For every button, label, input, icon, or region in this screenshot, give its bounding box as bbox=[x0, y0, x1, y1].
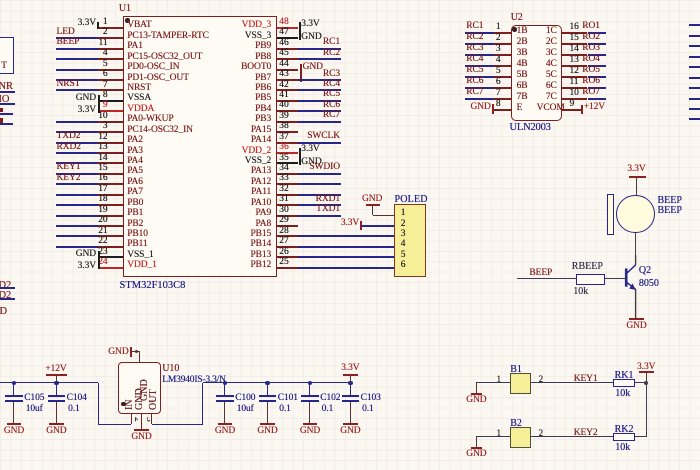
key switch B1 bbox=[497, 382, 510, 383]
clipped net label fragment bbox=[0, 118, 3, 123]
wire bbox=[588, 65, 606, 67]
U1 pin 19 (PB1) bbox=[98, 215, 123, 217]
wire bbox=[98, 383, 99, 424]
clipped net label D2 bbox=[0, 280, 79, 292]
net label RC4 bbox=[280, 79, 340, 90]
POLED pin 6 bbox=[401, 260, 481, 271]
U1 pin 37 (PA14) bbox=[277, 142, 298, 144]
net label RC1 bbox=[280, 37, 340, 48]
net label RO4 bbox=[582, 54, 662, 65]
wire bbox=[56, 152, 99, 154]
U1 pin 24 (VDD_1) bbox=[98, 267, 123, 269]
U2 pin 9 (VCOM) bbox=[562, 109, 581, 111]
capacitor C102 bbox=[309, 383, 310, 395]
net label RC7 bbox=[466, 87, 546, 98]
net label NRST bbox=[57, 79, 137, 90]
wire bbox=[298, 142, 341, 144]
wire bbox=[298, 173, 341, 175]
designator POLED bbox=[395, 194, 475, 205]
U2 pin 8 (E) bbox=[494, 109, 510, 111]
wire bbox=[298, 246, 394, 248]
U1 pin 32 (PA11) bbox=[277, 194, 298, 196]
wire bbox=[56, 215, 99, 217]
wire bbox=[298, 89, 341, 91]
wire bbox=[689, 45, 700, 47]
value LM3940IS-3.3/N bbox=[162, 375, 242, 386]
U2 pin 10 (7C) bbox=[562, 98, 587, 100]
U2 pin 12 (5C) bbox=[562, 76, 587, 78]
U10 pin-1 marker dot bbox=[121, 402, 125, 406]
wire bbox=[0, 91, 15, 93]
wire bbox=[202, 383, 203, 424]
ground GND (U10 tab) bbox=[130, 347, 132, 357]
ground GND (C105) bbox=[7, 423, 21, 425]
wire bbox=[476, 382, 497, 383]
power port 3.3V (U1 pin 1) bbox=[97, 22, 99, 29]
U1 pin-1 marker dot bbox=[125, 18, 129, 22]
junction bbox=[223, 381, 227, 385]
U1 pin 38 (PA15) bbox=[277, 131, 298, 133]
wire bbox=[689, 98, 700, 100]
ground GND (U10) bbox=[134, 429, 148, 431]
wire bbox=[689, 108, 700, 110]
svg-text:OUT: OUT bbox=[148, 389, 159, 410]
U1 pin 4 (PC15-OSC32_OUT) bbox=[98, 58, 123, 60]
wire +12V bus bbox=[0, 382, 98, 383]
junction bbox=[54, 381, 58, 385]
net label RO7 bbox=[582, 87, 662, 98]
designator U1 bbox=[119, 3, 199, 14]
wire 3.3V bus bbox=[203, 382, 351, 383]
wire bbox=[98, 424, 131, 425]
svg-text:3: 3 bbox=[144, 417, 150, 422]
U2 pin 2 (2B) bbox=[494, 43, 510, 45]
U1 pin 15 (PA5) bbox=[98, 173, 123, 175]
net label RC2 bbox=[280, 48, 340, 59]
U1 pin 6 (PD1-OSC_OUT) bbox=[98, 79, 123, 81]
U2 pin-1 marker dot bbox=[512, 27, 516, 31]
U2 pin 14 (3C) bbox=[562, 54, 587, 56]
net label BEEP bbox=[57, 37, 137, 48]
U10 pin 2 stub bbox=[131, 414, 132, 424]
wire bbox=[689, 118, 700, 120]
wire bbox=[465, 43, 494, 45]
capacitor C105 bbox=[13, 383, 14, 395]
value ULN2003 bbox=[510, 122, 590, 134]
wire bbox=[298, 58, 341, 60]
wire bbox=[298, 235, 394, 237]
power port 3.3V (keys pull-up) bbox=[626, 362, 666, 373]
wire bbox=[689, 35, 700, 37]
U1 pin 21 (PB10) bbox=[98, 235, 123, 237]
net label SWDIO bbox=[280, 162, 340, 173]
net label RXD1 bbox=[280, 194, 340, 205]
transistor Q2 bbox=[600, 255, 660, 325]
wire bbox=[298, 194, 341, 196]
value 8050 bbox=[639, 278, 700, 289]
wire bbox=[298, 100, 341, 102]
wire bbox=[0, 113, 13, 115]
wire bbox=[56, 142, 99, 144]
U2 pin 1 (1B) bbox=[494, 32, 510, 34]
clipped net label IO bbox=[0, 94, 79, 106]
wire bbox=[465, 87, 494, 89]
U10 pin 3 stub bbox=[151, 414, 152, 424]
net label SWCLK bbox=[280, 131, 340, 142]
U10 top ground stub bbox=[139, 351, 140, 361]
U1 pin 2 (PC13-TAMPER-RTC) bbox=[98, 37, 123, 39]
wire bbox=[588, 32, 606, 34]
wire bbox=[56, 79, 99, 81]
U1 pin 17 (PA7) bbox=[98, 194, 123, 196]
POLED pin 3 bbox=[401, 229, 481, 240]
wire bbox=[0, 123, 13, 125]
ground GND (U1 pin 47) bbox=[301, 32, 381, 43]
net label TXD1 bbox=[280, 204, 340, 215]
clipped pin name T bbox=[1, 61, 81, 72]
net label RC3 bbox=[280, 69, 340, 80]
U1 pin 40 (PB4) bbox=[277, 110, 298, 112]
U1 pin 8 (VSSA) bbox=[98, 100, 123, 102]
U1 pin 47 (VSS_3) bbox=[277, 37, 298, 39]
wire bbox=[56, 173, 99, 175]
wire bbox=[152, 424, 203, 425]
designator U2 bbox=[511, 12, 591, 23]
ground GND (C102) bbox=[303, 423, 317, 425]
U1 pin 20 (PB2) bbox=[98, 225, 123, 227]
net label RC5 bbox=[466, 65, 546, 76]
net label RC4 bbox=[466, 54, 546, 65]
U1 pin 1 (VBAT) bbox=[98, 27, 123, 29]
net label KEY2 bbox=[574, 428, 654, 439]
U1 pin 25 (PB12) bbox=[277, 267, 298, 269]
U1 pin 34 (PA13) bbox=[277, 173, 298, 175]
wire bbox=[689, 24, 700, 26]
wire bbox=[56, 204, 99, 206]
wire bbox=[298, 215, 341, 217]
wire bbox=[56, 183, 99, 185]
U1 pin 46 (PB9) bbox=[277, 48, 298, 50]
U1 pin 23 (VSS_1) bbox=[98, 256, 123, 258]
clipped net label NR bbox=[0, 81, 79, 93]
wire bbox=[298, 48, 341, 50]
buzzer LS1 element bbox=[616, 195, 655, 234]
wire bbox=[689, 56, 700, 58]
U1 pin 30 (PA9) bbox=[277, 215, 298, 217]
wire bbox=[56, 225, 99, 227]
IC U1 body bbox=[123, 16, 277, 276]
value STM32F103C8 bbox=[120, 280, 200, 292]
U2 pin 11 (6C) bbox=[562, 87, 587, 89]
wire bbox=[689, 87, 700, 89]
wire bbox=[605, 278, 626, 279]
wire bbox=[646, 383, 647, 437]
label BEEP BEEP bbox=[658, 195, 700, 206]
POLED pin 4 bbox=[401, 239, 481, 250]
wire bbox=[56, 37, 99, 39]
U1 pin 13 (PA3) bbox=[98, 152, 123, 154]
power port +12V (U2 pin 9 VCOM) bbox=[581, 105, 583, 114]
U1 pin 7 (NRST) bbox=[98, 89, 123, 91]
wire bbox=[465, 32, 494, 34]
net label KEY1 bbox=[574, 374, 654, 385]
wire bbox=[531, 382, 614, 383]
resistor RK2 bbox=[613, 433, 635, 441]
U1 pin 33 (PA12) bbox=[277, 183, 298, 185]
U1 pin 3 (PC14-OSC32_IN) bbox=[98, 131, 123, 133]
U1 pin 5 (PD0-OSC_IN) bbox=[98, 69, 123, 71]
wire bbox=[531, 436, 614, 437]
net label TXD2 bbox=[57, 131, 137, 142]
wire bbox=[588, 98, 606, 100]
U2 pin 15 (2C) bbox=[562, 43, 587, 45]
U1 pin 42 (PB6) bbox=[277, 89, 298, 91]
U1 pin 27 (PB14) bbox=[277, 246, 298, 248]
U2 pin 4 (4B) bbox=[494, 65, 510, 67]
U1 pin 18 (PB0) bbox=[98, 204, 123, 206]
ground GND (U2 pin 8) bbox=[451, 102, 491, 113]
wire bbox=[465, 76, 494, 78]
U1 pin 44 (BOOT0) bbox=[277, 69, 298, 71]
wire bbox=[517, 278, 576, 279]
net label RC6 bbox=[280, 100, 340, 111]
U2 pin 6 (6B) bbox=[494, 87, 510, 89]
ground GND (C100) bbox=[218, 423, 232, 425]
U2 pin 3 (3B) bbox=[494, 54, 510, 56]
wire bbox=[56, 48, 99, 50]
wire bbox=[56, 235, 99, 237]
ground GND (U1 pins 44/43, BOOT0) bbox=[300, 64, 302, 82]
power port 3.3V (U1 pin 9) bbox=[56, 105, 96, 116]
net label KEY1 bbox=[57, 162, 137, 173]
net label BEEP bbox=[529, 268, 609, 279]
wire bbox=[298, 79, 341, 81]
net label RC2 bbox=[466, 32, 546, 43]
U2 pin 16 (1C) bbox=[562, 32, 587, 34]
key switch B2 bbox=[497, 436, 510, 437]
wire bbox=[56, 131, 99, 133]
U1 pin 14 (PA4) bbox=[98, 162, 123, 164]
wire bbox=[635, 233, 636, 265]
U1 pin 22 (PB11) bbox=[98, 246, 123, 248]
junction bbox=[348, 381, 352, 385]
net label LED bbox=[57, 27, 137, 38]
wire bbox=[56, 69, 99, 71]
ground GND (POLED pin 1) bbox=[342, 194, 382, 205]
power port 3.3V (POLED pin 2) bbox=[319, 218, 359, 229]
U1 pin 16 (PA6) bbox=[98, 183, 123, 185]
power port 3.3V (U1 pin 36) bbox=[299, 148, 301, 166]
U1 pin 45 (PB8) bbox=[277, 58, 298, 60]
U1 pin 48 (VDD_3) bbox=[277, 27, 298, 29]
net label RO5 bbox=[582, 65, 662, 76]
IC U10 body bbox=[118, 362, 161, 414]
net label RC3 bbox=[466, 43, 546, 54]
U1 pin 12 (PA2) bbox=[98, 142, 123, 144]
resistor RBEEP bbox=[576, 274, 605, 285]
U1 pin 26 (PB13) bbox=[277, 256, 298, 258]
connector POLED body bbox=[394, 204, 426, 277]
net label RO6 bbox=[582, 76, 662, 87]
wire bbox=[298, 256, 394, 258]
capacitor C100 bbox=[224, 383, 225, 395]
wire bbox=[588, 54, 606, 56]
U1 pin 39 (PB3) bbox=[277, 121, 298, 123]
net label RO3 bbox=[582, 43, 662, 54]
wire bbox=[56, 89, 99, 91]
wire bbox=[56, 58, 99, 60]
ground GND (C104) bbox=[49, 423, 63, 425]
net label RC1 bbox=[466, 21, 546, 32]
U1 pin 36 (VDD_2) bbox=[277, 152, 298, 154]
wire bbox=[0, 287, 15, 289]
IC U2 body bbox=[511, 25, 563, 121]
capacitor C103 bbox=[350, 383, 351, 395]
wire bbox=[635, 382, 646, 383]
U1 pin 29 (PA8) bbox=[277, 225, 298, 227]
net label RO1 bbox=[582, 21, 662, 32]
ground GND (U1 pin 23) bbox=[98, 251, 100, 269]
wire bbox=[689, 66, 700, 68]
U2 pin 13 (4C) bbox=[562, 65, 587, 67]
clipped net label fragment bbox=[0, 108, 3, 113]
wire bbox=[56, 194, 99, 196]
U1 pin 10 (PA0-WKUP) bbox=[98, 121, 123, 123]
wire bbox=[56, 246, 99, 248]
U1 pin 41 (PB5) bbox=[277, 100, 298, 102]
U10 pin GND stub bbox=[141, 414, 142, 430]
designator U10 bbox=[162, 363, 242, 374]
wire bbox=[588, 76, 606, 78]
wire bbox=[0, 298, 15, 300]
wire bbox=[476, 436, 497, 437]
wire bbox=[298, 110, 341, 112]
junction bbox=[644, 381, 648, 385]
power port 3.3V (regulator output) bbox=[330, 363, 370, 374]
POLED pin 5 bbox=[401, 250, 481, 261]
wire bbox=[689, 77, 700, 79]
U1 pin 43 (PB7) bbox=[277, 79, 298, 81]
wire bbox=[465, 98, 494, 100]
ground GND (U1 pin 8) bbox=[98, 95, 100, 113]
wire bbox=[361, 225, 394, 227]
wire bbox=[0, 103, 15, 105]
power port 3.3V (U1 pin 24) bbox=[56, 261, 96, 272]
wire bbox=[298, 267, 394, 269]
net label RO2 bbox=[582, 32, 662, 43]
net label RXD2 bbox=[57, 142, 137, 153]
ground GND (C103) bbox=[343, 423, 357, 425]
designator Q2 bbox=[639, 265, 700, 276]
capacitor C104 bbox=[56, 383, 57, 395]
ground GND (U1 pin 35) bbox=[301, 157, 381, 168]
net label RC7 bbox=[280, 110, 340, 121]
wire bbox=[298, 121, 341, 123]
U1 pin 11 (PA1) bbox=[98, 48, 123, 50]
net label KEY2 bbox=[57, 173, 137, 184]
wire bbox=[298, 204, 341, 206]
POLED pin 1 bbox=[401, 208, 481, 219]
ground GND (C101) bbox=[260, 423, 274, 425]
net label RC6 bbox=[466, 76, 546, 87]
U1 pin 9 (VDDA) bbox=[98, 110, 123, 112]
power port +12V bbox=[34, 364, 78, 375]
wire bbox=[588, 87, 606, 89]
ground GND (Q2 emitter) bbox=[629, 318, 644, 320]
power port 3.3V (beeper) bbox=[617, 164, 657, 175]
wire bbox=[465, 65, 494, 67]
wire bbox=[635, 436, 646, 437]
wire bbox=[636, 177, 637, 195]
U1 pin 31 (PA10) bbox=[277, 204, 298, 206]
wire bbox=[298, 183, 341, 185]
clipped IC body (left edge) bbox=[0, 37, 14, 74]
U2 pin 5 (5B) bbox=[494, 76, 510, 78]
power port 3.3V (U1 pin 48) bbox=[299, 22, 301, 40]
U2 pin 7 (7B) bbox=[494, 98, 510, 100]
buzzer terminal plate bbox=[607, 194, 614, 236]
POLED pin 2 bbox=[401, 219, 481, 230]
resistor RK1 bbox=[613, 379, 635, 387]
junction bbox=[265, 381, 269, 385]
clipped net label D2 bbox=[0, 290, 79, 302]
U1 pin 35 (VSS_2) bbox=[277, 162, 298, 164]
junction bbox=[308, 381, 312, 385]
ground GND (B2) bbox=[471, 447, 482, 449]
U10 pin names IN GND GND OUT (rotated) bbox=[118, 361, 162, 414]
U1 pin 28 (PB15) bbox=[277, 235, 298, 237]
junction bbox=[12, 381, 16, 385]
wire bbox=[465, 54, 494, 56]
wire bbox=[56, 162, 99, 164]
clipped net label D bbox=[0, 306, 80, 318]
wire bbox=[588, 43, 606, 45]
ground GND (B1) bbox=[471, 393, 482, 395]
wire bbox=[56, 121, 99, 123]
net label RC5 bbox=[280, 89, 340, 100]
capacitor C101 bbox=[267, 383, 268, 395]
